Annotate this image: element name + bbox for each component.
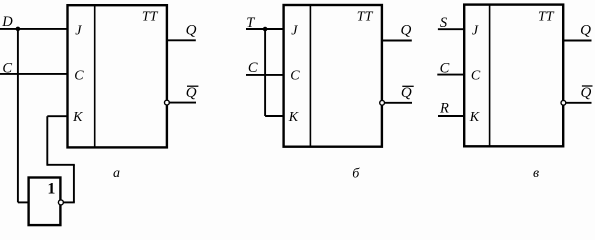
flip-flop DD3 body (284, 5, 382, 147)
svg-text:C: C (471, 68, 481, 83)
wire S to J input (438, 28, 464, 30)
wire into K input of DD3 (265, 115, 284, 117)
svg-text:1: 1 (47, 180, 55, 197)
svg-text:в: в (533, 166, 539, 181)
node: junction on D wire (16, 27, 21, 32)
inversion bubble on inverse output of DD4 (561, 100, 566, 105)
svg-text:J: J (291, 23, 298, 38)
wire D to J input (0, 28, 68, 30)
wire into K input (47, 115, 67, 117)
wire T to J input (246, 28, 284, 30)
wire: horizontal into inverter input (18, 201, 29, 203)
svg-text:Q: Q (186, 22, 197, 38)
svg-text:Q: Q (186, 85, 197, 101)
wire: inverter output vertical up (73, 165, 75, 203)
wire: from D junction down to inverter (vertical) (17, 29, 19, 203)
svg-text:а: а (113, 166, 120, 181)
svg-text:Q: Q (401, 85, 412, 101)
wire C input of DD4 (437, 74, 464, 76)
svg-text:TT: TT (357, 10, 374, 25)
svg-text:J: J (75, 23, 82, 38)
wire: output Q of DD3 (382, 40, 412, 42)
wire: horizontal jog toward K column (47, 164, 75, 166)
svg-text:б: б (352, 166, 360, 181)
svg-text:C: C (74, 68, 84, 83)
wire C input of DD3 (246, 74, 284, 76)
DD4 inner divider line (489, 5, 491, 147)
wire C to C input (0, 73, 68, 75)
inversion bubble on inverse output of DD1 (165, 100, 170, 105)
inverter DD2 output inversion bubble (58, 200, 63, 205)
svg-text:K: K (469, 110, 480, 125)
wire: T junction down to K (vertical) (264, 29, 266, 116)
flip-flop DD4 body (464, 5, 563, 147)
svg-text:Q: Q (580, 22, 591, 38)
svg-text:K: K (288, 110, 299, 125)
wire: inverse output of DD3 (385, 102, 412, 104)
wire: vertical up to K input wire (46, 116, 48, 166)
svg-text:Q: Q (581, 85, 592, 101)
wire R to K input (438, 115, 464, 117)
inversion bubble on inverse output of DD3 (380, 100, 385, 105)
svg-text:C: C (290, 68, 300, 83)
flip-flop DD1 body (68, 5, 167, 147)
wire: inverse output of DD1 (169, 102, 196, 104)
overline of Q-bar (187, 85, 198, 87)
svg-text:C: C (248, 60, 258, 76)
svg-text:TT: TT (538, 10, 555, 25)
wire: output Q of DD4 (563, 40, 591, 42)
svg-text:K: K (72, 110, 83, 125)
wire: inverter output horizontal (64, 201, 75, 203)
inverter DD2 body (29, 178, 61, 226)
svg-text:R: R (439, 101, 449, 117)
node: junction on T wire (263, 27, 268, 32)
wire: inverse output of DD4 (566, 102, 592, 104)
wire: output Q of DD1 (167, 39, 196, 41)
overline of Q-bar (circuit v) (582, 85, 593, 87)
DD1 inner divider line (94, 5, 96, 147)
overline of Q-bar (circuit b) (402, 85, 413, 87)
svg-text:J: J (472, 23, 479, 38)
svg-text:Q: Q (401, 22, 412, 38)
DD3 inner divider line (309, 5, 311, 147)
svg-text:TT: TT (142, 9, 159, 24)
svg-text:D: D (1, 14, 13, 30)
